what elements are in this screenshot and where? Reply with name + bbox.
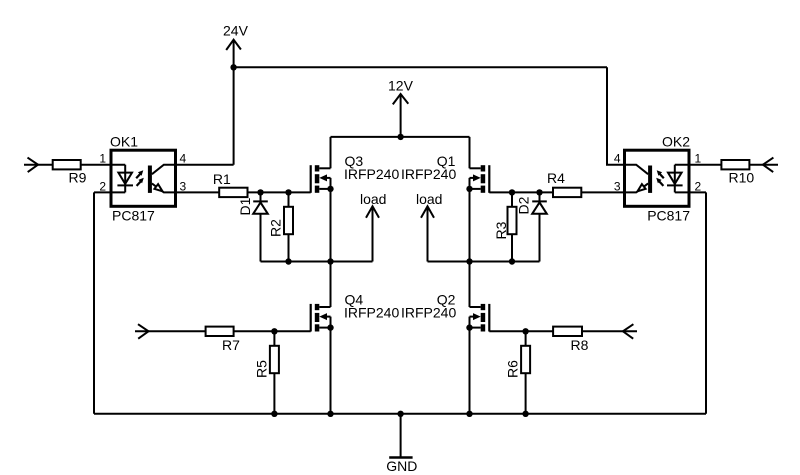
resistor R9: [53, 160, 87, 186]
wire mid-left rail: [261, 261, 373, 263]
node R5 bottom junction: [271, 411, 277, 417]
svg-text:PC817: PC817: [647, 208, 690, 224]
svg-text:R5: R5: [254, 360, 270, 378]
input terminal right outer: [749, 158, 778, 173]
resistor R7: [206, 327, 241, 353]
svg-text:R10: R10: [729, 170, 755, 186]
wire R4 to OK2 pin3: [581, 191, 624, 193]
op-amp OK1 optocoupler box: [110, 133, 176, 223]
transistor Q1: [401, 153, 489, 193]
transistor Q4: [311, 291, 400, 331]
node R3 top junction: [509, 189, 515, 195]
svg-text:OK2: OK2: [662, 133, 690, 149]
svg-text:1: 1: [99, 152, 106, 166]
wire R1 to Q3 gate: [248, 191, 311, 193]
wire Q3 source down: [330, 189, 332, 262]
node R2 bottom junction: [285, 258, 291, 264]
wire 24V right drop: [607, 67, 625, 164]
svg-text:R4: R4: [547, 170, 565, 186]
resistor R1: [213, 171, 248, 197]
svg-text:load: load: [360, 191, 386, 207]
svg-text:R3: R3: [493, 221, 509, 239]
node R6 top junction: [522, 328, 528, 334]
transistor Q3: [311, 153, 400, 193]
svg-text:GND: GND: [386, 458, 417, 474]
node R2 top junction: [285, 189, 291, 195]
24V power terminal: [226, 40, 241, 165]
svg-text:12V: 12V: [388, 78, 414, 94]
wire Q3 drain to 12V rail: [330, 137, 332, 168]
svg-text:4: 4: [180, 152, 187, 166]
wire Q1 gate to R4: [489, 191, 553, 193]
node Q3 source-body junction: [327, 186, 333, 192]
svg-text:2: 2: [99, 179, 106, 193]
svg-text:3: 3: [180, 179, 187, 193]
photon arrows OK2: [656, 170, 664, 186]
node D2 top junction: [536, 189, 542, 195]
wire Q2 drain up to mid rail: [469, 262, 471, 308]
wire left vertical to ground rail: [93, 192, 95, 413]
photon arrows OK1: [136, 170, 144, 186]
node Q2 source-body junction: [466, 324, 472, 330]
svg-text:IRFP240: IRFP240: [401, 305, 456, 321]
svg-text:4: 4: [614, 152, 621, 166]
node D1 top junction: [257, 189, 263, 195]
wire right vertical to ground rail: [705, 192, 707, 413]
svg-text:IRFP240: IRFP240: [344, 305, 399, 321]
resistor R5: [254, 331, 279, 414]
wire Q2 source to ground rail: [469, 328, 471, 414]
wire OK2 pin1 to R10: [675, 164, 722, 166]
LED inside OK1: [117, 165, 133, 193]
svg-text:3: 3: [614, 179, 621, 193]
load arrow right: [416, 191, 442, 262]
resistor R8: [553, 327, 589, 353]
wire OK2 pin2 out: [675, 191, 706, 193]
svg-text:R1: R1: [213, 171, 231, 187]
svg-text:D2: D2: [516, 196, 532, 214]
input terminal right inner: [582, 324, 637, 339]
wire R7 to Q4 gate: [234, 330, 311, 332]
wire Q4 source to ground rail: [330, 328, 332, 414]
wire OK1 pin3 to R1: [176, 191, 220, 193]
svg-text:24V: 24V: [223, 23, 249, 39]
phototransistor OK2: [625, 165, 653, 193]
wire mid-right rail: [428, 261, 540, 263]
wire Q1 source down: [469, 189, 471, 262]
wire Q4 drain up to mid rail: [330, 262, 332, 308]
LED inside OK2: [667, 165, 683, 193]
svg-text:R2: R2: [268, 219, 284, 237]
wire 24V rail horizontal: [234, 66, 607, 68]
wire Q2 gate to R8: [489, 330, 553, 332]
svg-text:R7: R7: [222, 337, 240, 353]
svg-text:load: load: [416, 191, 442, 207]
svg-text:R8: R8: [571, 337, 589, 353]
wire ground rail: [94, 413, 706, 415]
node GND tap junction: [397, 411, 403, 417]
wire R9 to OK1 pin1: [81, 164, 126, 166]
svg-text:OK1: OK1: [110, 133, 138, 149]
wire OK1 pin2 out: [94, 191, 125, 193]
12V power terminal: [393, 94, 409, 137]
wire OK1 pin4 to 24V: [176, 164, 234, 166]
node 24V tap junction: [230, 64, 236, 70]
diode D1: [237, 192, 268, 261]
op-amp OK2 optocoupler box: [625, 133, 691, 223]
load arrow left: [360, 191, 386, 262]
wire Q1 drain to 12V rail: [469, 137, 471, 168]
transistor Q2: [401, 291, 489, 331]
input terminal left inner: [135, 324, 206, 339]
input terminal left outer: [24, 158, 53, 173]
node Q4 source-body junction: [327, 324, 333, 330]
resistor R6: [505, 331, 531, 414]
svg-text:2: 2: [695, 179, 702, 193]
svg-text:1: 1: [695, 152, 702, 166]
svg-text:R6: R6: [505, 360, 521, 378]
node 12V tap junction: [397, 134, 403, 140]
resistor R4: [547, 170, 581, 197]
node Q4 source rail junction: [327, 411, 333, 417]
ground: [386, 414, 417, 474]
wire 12V rail: [331, 136, 470, 138]
node R6 bottom junction: [522, 411, 528, 417]
diode D2: [516, 192, 547, 261]
svg-text:PC817: PC817: [112, 208, 155, 224]
node Q2 source rail junction: [466, 411, 472, 417]
svg-text:IRFP240: IRFP240: [401, 166, 456, 182]
resistor R10: [721, 160, 754, 186]
node Q1 source-body junction: [466, 186, 472, 192]
node half-bridge right junction: [466, 258, 472, 264]
svg-text:IRFP240: IRFP240: [344, 166, 399, 182]
resistor R3: [493, 192, 517, 261]
svg-text:D1: D1: [237, 197, 253, 215]
phototransistor OK1: [148, 165, 176, 193]
node R5 top junction: [271, 328, 277, 334]
node half-bridge left junction: [327, 258, 333, 264]
resistor R2: [268, 192, 294, 261]
svg-text:R9: R9: [69, 170, 87, 186]
node R3 bottom junction: [509, 258, 515, 264]
